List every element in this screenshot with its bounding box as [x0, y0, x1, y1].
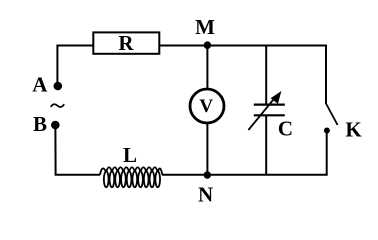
capacitor variable arrow: [248, 91, 281, 130]
svg-text:A: A: [32, 73, 48, 97]
svg-text:L: L: [123, 143, 137, 167]
wire from voltmeter down to node N: [206, 123, 208, 175]
capacitor C bottom plate: [254, 114, 285, 116]
wire from inductor to node N and bottom-right corner: [162, 133, 327, 175]
svg-text:M: M: [195, 15, 215, 39]
svg-text:K: K: [345, 117, 362, 141]
wire from M down to voltmeter: [206, 46, 208, 90]
wire from B down to bottom-left corner and right to inductor: [55, 128, 100, 175]
node N: [204, 171, 211, 178]
node M: [204, 41, 212, 49]
svg-text:C: C: [278, 116, 293, 140]
svg-text:B: B: [33, 112, 47, 136]
wire from capacitor down to bottom rail: [265, 115, 267, 174]
wire from resistor to node M and on to top-right corner: [160, 46, 326, 105]
AC source tilde: [51, 104, 64, 107]
svg-text:R: R: [118, 31, 134, 55]
svg-text:V: V: [199, 96, 213, 117]
voltmeter U1 circle: [190, 89, 224, 123]
wire from top rail down to capacitor: [265, 46, 267, 106]
switch K lever: [326, 104, 338, 126]
switch K contact dot: [324, 128, 330, 134]
terminal A: [54, 82, 63, 91]
svg-text:N: N: [198, 183, 213, 207]
capacitor C top plate: [254, 103, 285, 105]
wire from A up to top-left corner and right to resistor: [57, 46, 92, 84]
terminal B: [51, 121, 60, 130]
resistor R1 box: [93, 32, 159, 53]
inductor L coil: [100, 167, 162, 187]
